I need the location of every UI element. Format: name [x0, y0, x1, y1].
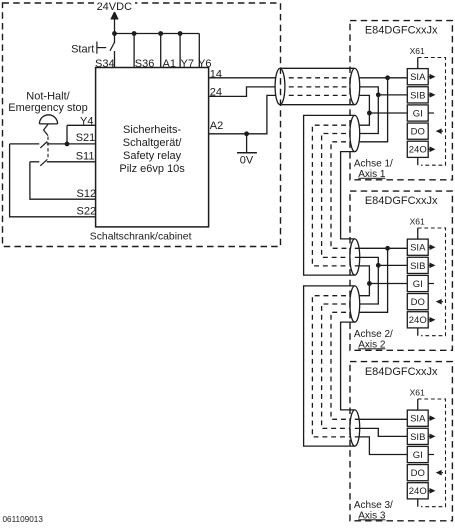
svg-text:SIB: SIB — [410, 261, 425, 272]
svg-text:SIA: SIA — [410, 243, 426, 254]
svg-text:24O: 24O — [409, 315, 427, 326]
svg-text:Achse 3/: Achse 3/ — [354, 500, 393, 511]
svg-text:Axis 3: Axis 3 — [358, 510, 386, 521]
svg-text:SIA: SIA — [410, 72, 426, 83]
svg-text:X61: X61 — [410, 388, 425, 398]
svg-text:0V: 0V — [240, 154, 254, 166]
svg-text:Axis 1: Axis 1 — [358, 169, 386, 180]
svg-text:Y7: Y7 — [181, 58, 194, 70]
svg-text:Achse 1/: Achse 1/ — [354, 158, 393, 169]
svg-text:Y4: Y4 — [80, 116, 93, 128]
svg-text:SIB: SIB — [410, 90, 425, 101]
svg-text:GI: GI — [413, 279, 423, 290]
svg-text:14: 14 — [210, 68, 222, 80]
svg-text:24: 24 — [210, 86, 222, 98]
svg-text:Safety relay: Safety relay — [123, 150, 182, 162]
svg-text:S21: S21 — [76, 132, 96, 144]
svg-text:DO: DO — [411, 127, 425, 138]
svg-text:SIA: SIA — [410, 414, 426, 425]
svg-text:GI: GI — [413, 108, 423, 119]
svg-text:GI: GI — [413, 450, 423, 461]
svg-text:S11: S11 — [76, 150, 95, 162]
svg-text:E84DGFCxxJx: E84DGFCxxJx — [365, 25, 438, 37]
svg-text:Sicherheits-: Sicherheits- — [123, 124, 181, 136]
svg-text:SIB: SIB — [410, 432, 425, 443]
svg-text:A1: A1 — [163, 58, 176, 70]
svg-text:061109013: 061109013 — [3, 515, 44, 524]
svg-text:Emergency stop: Emergency stop — [8, 102, 87, 114]
svg-text:S36: S36 — [135, 58, 155, 70]
svg-text:DO: DO — [411, 297, 425, 308]
svg-text:S34: S34 — [95, 58, 115, 70]
svg-text:X61: X61 — [410, 217, 425, 227]
svg-text:24VDC: 24VDC — [97, 1, 133, 13]
svg-text:E84DGFCxxJx: E84DGFCxxJx — [365, 195, 438, 207]
svg-text:Not-Halt/: Not-Halt/ — [26, 91, 70, 103]
svg-text:Achse 2/: Achse 2/ — [354, 329, 393, 340]
svg-text:Pilz e6vp 10s: Pilz e6vp 10s — [119, 163, 185, 175]
svg-text:24O: 24O — [409, 145, 427, 156]
svg-text:24O: 24O — [409, 486, 427, 497]
svg-text:E84DGFCxxJx: E84DGFCxxJx — [365, 366, 438, 378]
svg-text:Start: Start — [71, 43, 94, 55]
svg-text:S22: S22 — [77, 205, 97, 217]
svg-text:DO: DO — [411, 468, 425, 479]
svg-text:S12: S12 — [77, 188, 97, 200]
svg-text:Schaltgerät/: Schaltgerät/ — [123, 137, 183, 149]
svg-text:Axis 2: Axis 2 — [358, 339, 386, 350]
svg-text:A2: A2 — [210, 120, 223, 132]
svg-text:Schaltschrank/cabinet: Schaltschrank/cabinet — [90, 231, 192, 242]
svg-text:X61: X61 — [410, 46, 425, 56]
